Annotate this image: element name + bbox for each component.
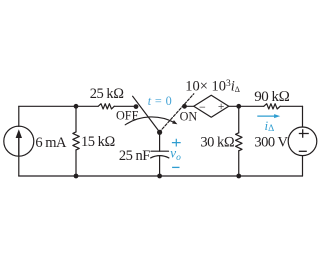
svg-text:25 kΩ: 25 kΩ — [90, 86, 124, 102]
svg-text:6 mA: 6 mA — [35, 135, 67, 151]
svg-text:−: − — [199, 100, 206, 114]
svg-text:25 nF: 25 nF — [119, 148, 150, 164]
svg-text:t = 0: t = 0 — [148, 94, 172, 108]
svg-text:300 V: 300 V — [254, 135, 288, 151]
svg-text:15 kΩ: 15 kΩ — [81, 134, 115, 150]
svg-text:+: + — [218, 101, 225, 113]
svg-text:90 kΩ: 90 kΩ — [254, 89, 289, 105]
svg-text:ON: ON — [180, 110, 198, 124]
svg-text:30 kΩ: 30 kΩ — [200, 134, 234, 150]
svg-text:10× 103iΔ: 10× 103iΔ — [185, 79, 240, 95]
svg-text:OFF: OFF — [116, 108, 139, 122]
